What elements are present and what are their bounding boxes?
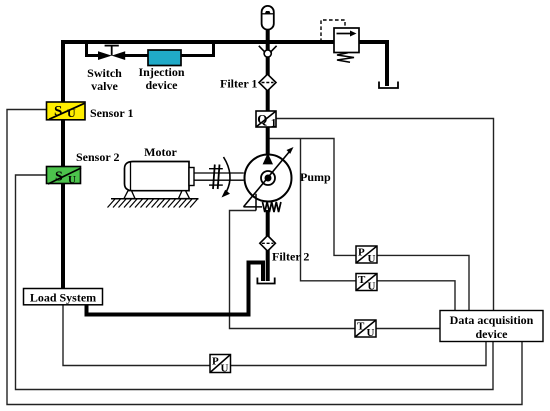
switch valve: [98, 46, 125, 60]
wire P/U sensor to DAQ: [377, 255, 469, 310]
pipe pump to filter 2: [266, 210, 270, 237]
pump compensator triangle: [244, 194, 263, 211]
motor body: [125, 162, 195, 191]
pipe main line to check valve: [266, 42, 270, 50]
tank (relief valve drain): [379, 82, 398, 89]
check valve: [259, 46, 277, 57]
svg-text:U: U: [221, 363, 229, 375]
svg-text:1: 1: [271, 117, 277, 129]
svg-text:device: device: [476, 327, 509, 341]
svg-text:T: T: [357, 321, 365, 333]
motor shaft (double line): [194, 173, 244, 180]
wire flow meter to DAQ: [276, 119, 494, 311]
svg-text:Sensor 1: Sensor 1: [90, 106, 133, 120]
svg-text:Injection: Injection: [139, 65, 185, 79]
pipe check valve to filter 1: [266, 58, 270, 77]
motor foot right: [179, 191, 190, 199]
svg-text:Load System: Load System: [30, 290, 96, 304]
pipe main supply line (left vertical, top horizontal, right vertical to tank): [63, 42, 387, 292]
pipe filter 1 to flow meter: [266, 90, 270, 113]
Data acquisition device box: [440, 311, 543, 342]
pump variable displacement arrow: [244, 147, 294, 207]
sensor 2 (green): [47, 167, 82, 187]
relief valve spring: [337, 53, 354, 62]
pressure sensor P/U (bottom): [210, 355, 231, 375]
svg-text:Pump: Pump: [300, 170, 331, 184]
wire pump temperature tap to T/U sensor: [230, 211, 356, 329]
injection device: [148, 50, 181, 66]
ground line under motor: [111, 198, 199, 200]
wire T/U sensor to DAQ: [377, 281, 455, 311]
svg-text:U: U: [67, 106, 76, 120]
wire pressure tap line to P/U sensor: [269, 139, 356, 256]
temperature sensor T/U (pump outlet): [356, 274, 377, 293]
motor foot left: [124, 191, 135, 199]
pipe return line from Load System to tank: [87, 263, 264, 315]
sensor 1 (yellow): [47, 102, 86, 120]
rotation arrow: [222, 157, 231, 198]
svg-text:Data acquisition: Data acquisition: [450, 313, 534, 327]
svg-text:U: U: [368, 281, 376, 293]
flow meter Q1: [256, 111, 277, 129]
svg-text:S: S: [54, 104, 62, 120]
svg-text:U: U: [367, 327, 375, 339]
svg-text:Sensor 2: Sensor 2: [76, 150, 119, 164]
wire Sensor 1 feedback loop to DAQ: [7, 110, 522, 405]
pipe filter 2 to tank: [266, 250, 270, 281]
Load System box: [24, 289, 103, 305]
svg-text:T: T: [358, 274, 366, 286]
filter F2: [260, 236, 276, 252]
svg-text:Filter 1: Filter 1: [220, 77, 257, 91]
pipe flow meter to pump: [266, 126, 270, 157]
pipe injection branch left segment: [87, 41, 100, 56]
wire tap line to T/U sensor: [301, 139, 357, 281]
pump spring: [263, 202, 281, 212]
tank (return/filter 2): [257, 278, 274, 284]
pump P1: [245, 153, 292, 202]
svg-text:Q: Q: [257, 111, 267, 126]
relief valve pilot line (dashed): [321, 20, 345, 42]
svg-text:device: device: [146, 78, 179, 92]
svg-text:U: U: [68, 174, 76, 186]
svg-text:S: S: [55, 170, 63, 185]
svg-text:U: U: [368, 253, 376, 265]
pipe accumulator stem: [266, 28, 270, 44]
svg-text:P: P: [212, 356, 219, 368]
pipe injection branch right segment: [124, 41, 214, 56]
svg-text:Filter 2: Filter 2: [272, 250, 309, 264]
temperature sensor T/U (pump case): [355, 320, 376, 339]
svg-text:Motor: Motor: [144, 145, 177, 159]
svg-text:Switch: Switch: [87, 66, 122, 80]
wire Sensor 2 feedback loop to DAQ: [16, 175, 494, 390]
wire T/U sensor to DAQ left side: [376, 328, 440, 330]
svg-text:P: P: [358, 247, 365, 259]
wire Load System to P/U sensor and DAQ: [63, 305, 486, 366]
pressure sensor P/U (pump outlet): [356, 246, 377, 265]
relief valve V1: [334, 28, 359, 53]
ground hatching: [108, 199, 198, 208]
accumulator: [262, 6, 274, 30]
svg-text:valve: valve: [91, 79, 118, 93]
filter F1: [259, 74, 276, 91]
coupling: [209, 165, 223, 190]
